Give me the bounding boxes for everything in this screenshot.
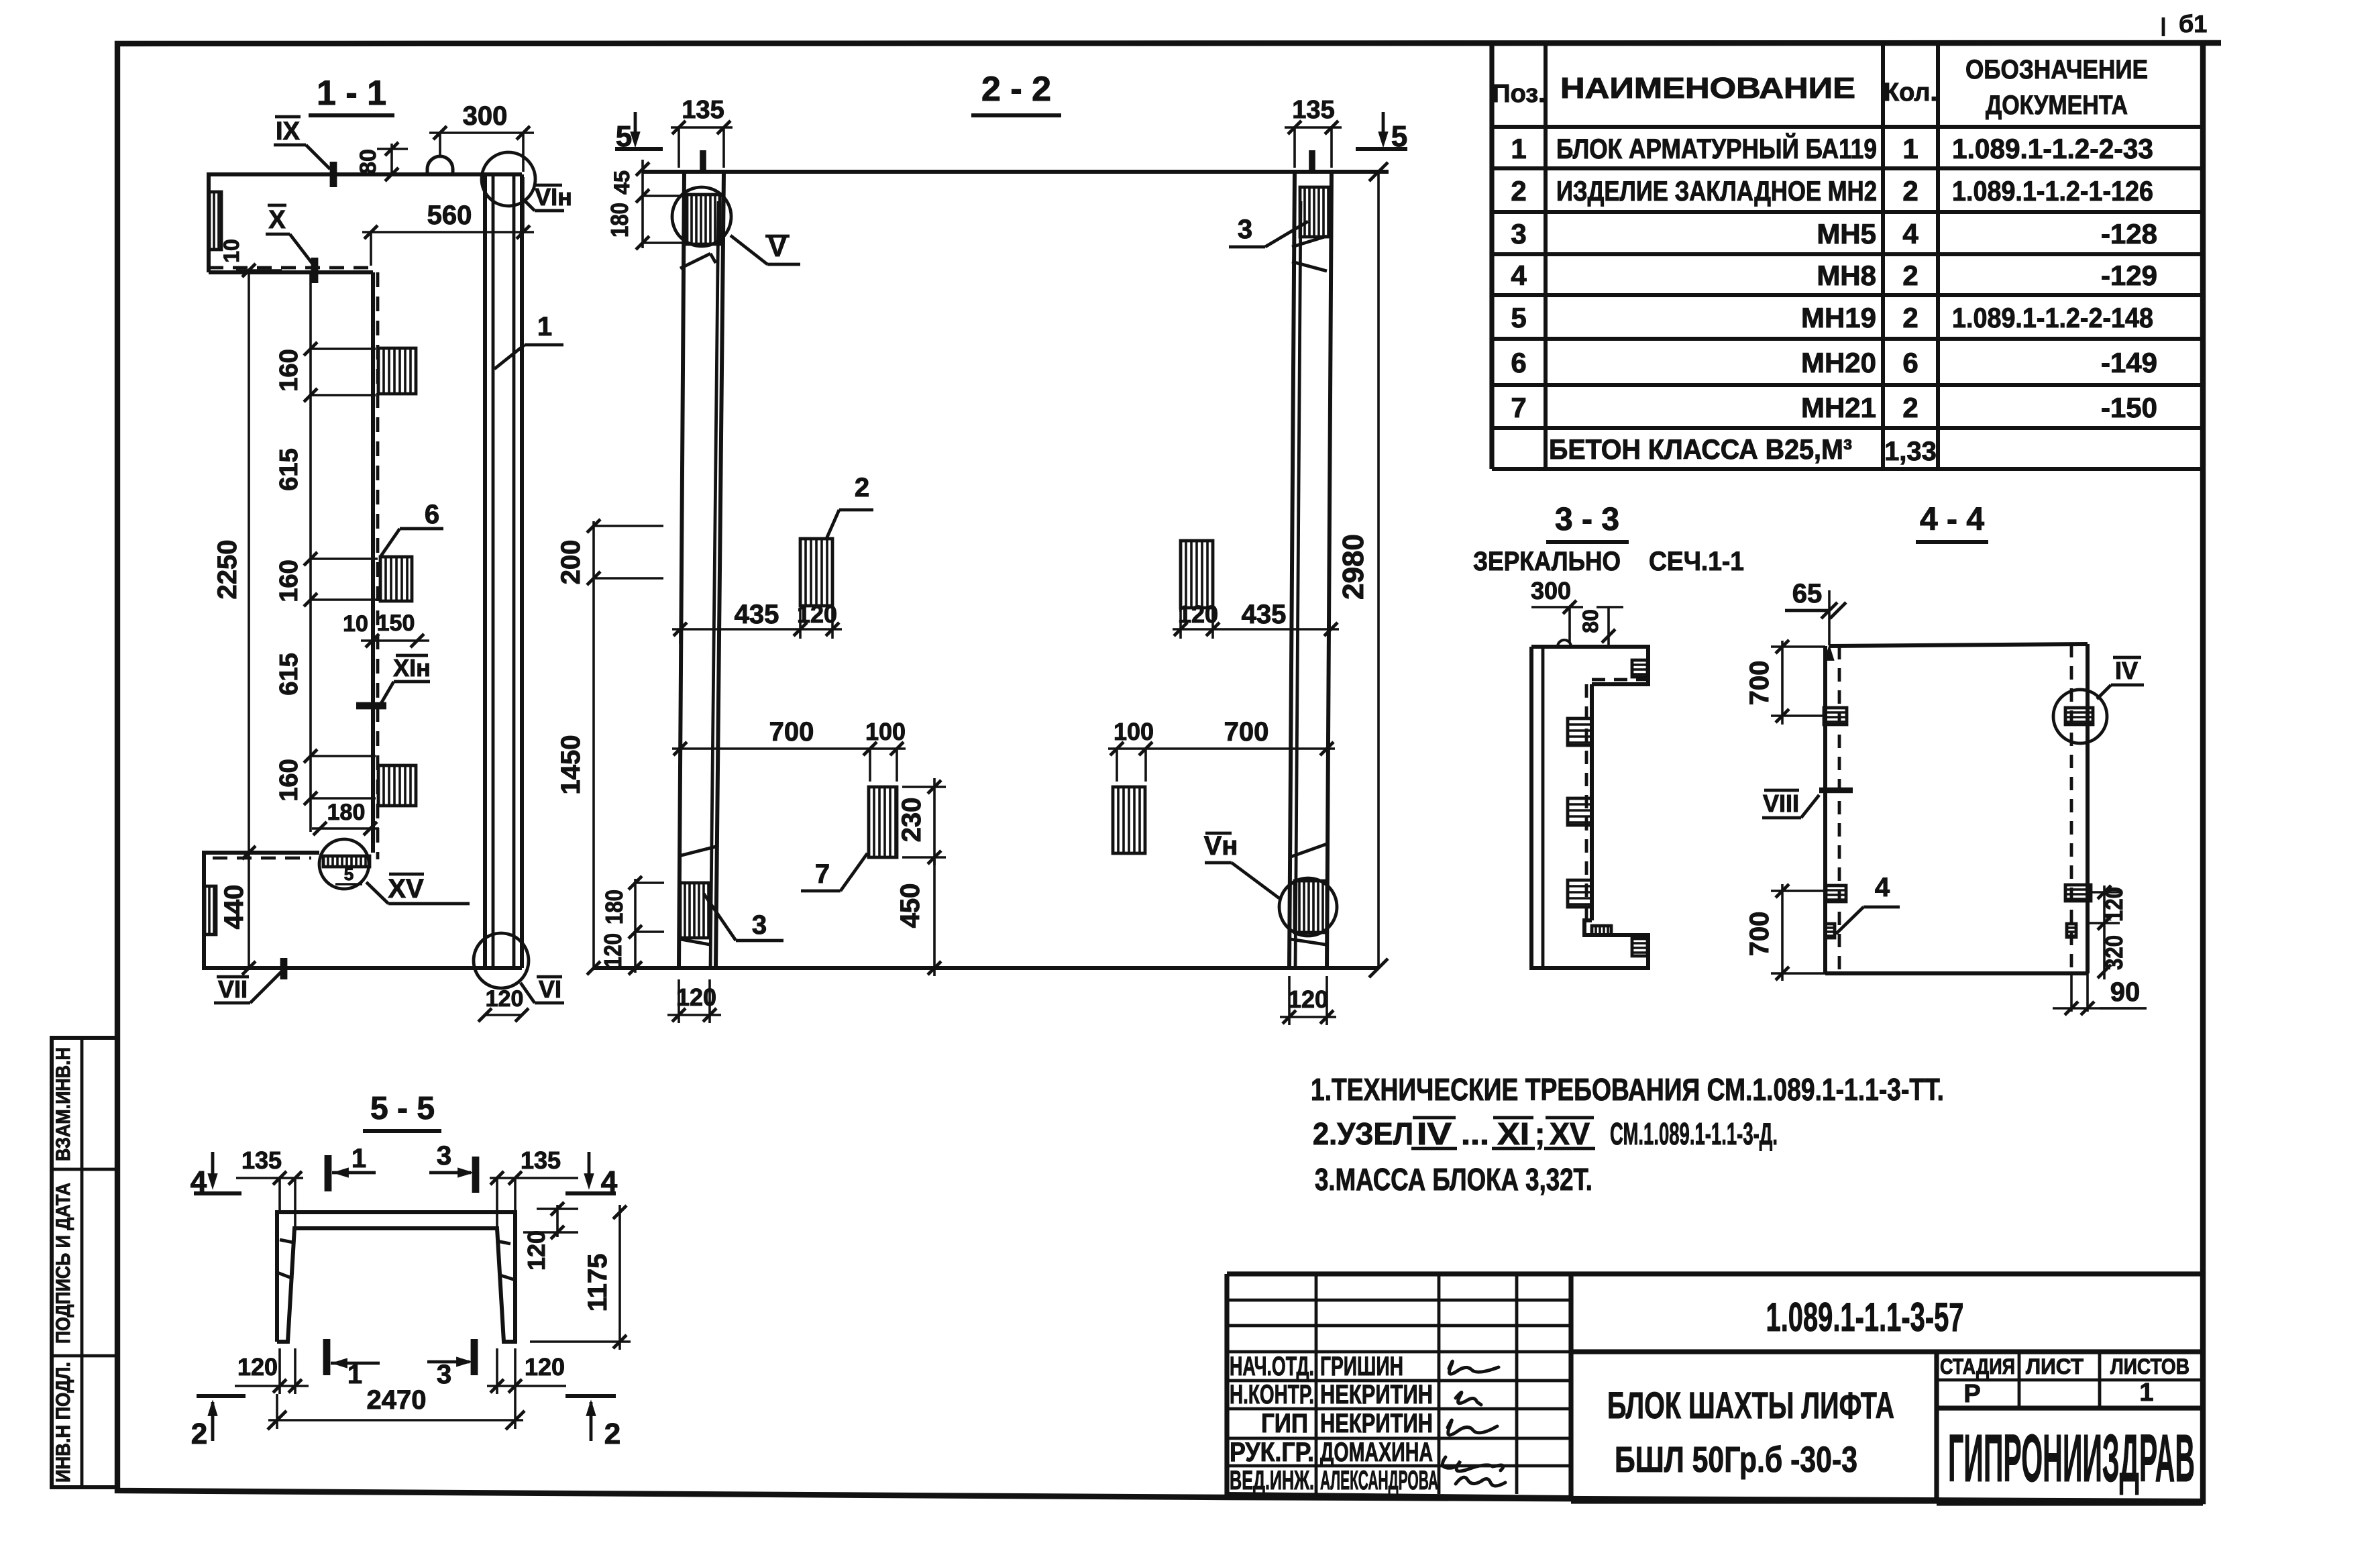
svg-text:120: 120: [797, 600, 837, 628]
dim 2980: [1337, 162, 1388, 977]
svg-text:180: 180: [600, 890, 628, 924]
dim 180 flange: [312, 800, 379, 835]
callout 3 bottom left: [704, 894, 783, 941]
svg-text:ВЗАМ.ИНВ.Н: ВЗАМ.ИНВ.Н: [52, 1047, 74, 1161]
svg-text:320: 320: [2100, 935, 2128, 970]
1-1 weld block upper: [378, 348, 416, 394]
signature squiggle 2: [1456, 1392, 1481, 1405]
svg-text:МН20: МН20: [1801, 347, 1876, 378]
4-4 right plate upper: [2065, 708, 2093, 725]
svg-text:6: 6: [1511, 347, 1526, 378]
svg-text:Vн: Vн: [1204, 831, 1238, 861]
staff row НАЧ.ОТД. ГРИШИН: [1230, 1352, 1403, 1381]
svg-text:3: 3: [437, 1360, 451, 1389]
2-2 right column hatch top: [1300, 187, 1331, 237]
svg-text:МН19: МН19: [1801, 302, 1876, 333]
1-1 slab keyway: [209, 192, 221, 250]
svg-text:560: 560: [427, 201, 472, 230]
svg-text:120: 120: [599, 933, 627, 968]
svg-text:1 - 1: 1 - 1: [317, 74, 386, 113]
callout 4 section44: [1836, 873, 1900, 934]
svg-text:XV: XV: [1550, 1116, 1590, 1151]
svg-text:615: 615: [275, 448, 303, 490]
table row 6: МН20: [1511, 347, 2157, 378]
svg-text:120: 120: [237, 1353, 278, 1381]
svg-text:БШЛ 50Гр.б -30-3: БШЛ 50Гр.б -30-3: [1615, 1440, 1857, 1480]
svg-text:1: 1: [537, 312, 552, 341]
node XIn label: [356, 654, 431, 706]
svg-text:1.089.1-1.2-1-126: 1.089.1-1.2-1-126: [1952, 175, 2153, 207]
section 2-2 title: [971, 70, 1061, 115]
chain dim 200-1450 left: [556, 519, 663, 975]
3-3 foot hatch: [1592, 926, 1611, 935]
1-1 bottom flange: [204, 853, 522, 968]
svg-text:ГИПРОНИИЗДРАВ: ГИПРОНИИЗДРАВ: [1948, 1421, 2195, 1496]
2-2 bottom edge: [594, 966, 1378, 970]
svg-text:435: 435: [1242, 600, 1287, 629]
node V label: [731, 233, 800, 264]
table row 2: ИЗДЕЛИЕ ЗАКЛАДНОЕ МН2: [1511, 175, 2153, 207]
signature squiggle 5: [1456, 1477, 1505, 1486]
note 2 roman numeral bars: [1411, 1118, 1595, 1148]
svg-text:160: 160: [275, 759, 303, 801]
svg-text:VIII: VIII: [1763, 790, 1799, 817]
node VIn label: [523, 183, 572, 211]
3-3 bottom right plate: [1632, 939, 1647, 956]
chain dim 45-180 left: [606, 160, 684, 250]
svg-text:135: 135: [1292, 96, 1334, 124]
margin stamp boxes: [52, 1038, 118, 1487]
svg-text:VIн: VIн: [535, 183, 572, 211]
dim 80: [356, 142, 408, 181]
svg-text:1: 1: [351, 1144, 366, 1173]
5-5 mark 3 top: [429, 1141, 476, 1193]
svg-text:1.ТЕХНИЧЕСКИЕ ТРЕБОВАНИЯ СМ.1.: 1.ТЕХНИЧЕСКИЕ ТРЕБОВАНИЯ СМ.1.089.1-1.1-…: [1311, 1072, 1944, 1107]
node VIII label: [1762, 790, 1853, 818]
svg-text:135: 135: [241, 1146, 282, 1174]
svg-text:2: 2: [1902, 260, 1918, 291]
callout 6: [380, 500, 443, 557]
1-1 weld block mid: [380, 557, 412, 601]
mark 5 top right: [1356, 112, 1407, 153]
svg-text:-150: -150: [2101, 392, 2157, 423]
3-3 body outline: [1531, 647, 1648, 968]
svg-text:ЗЕРКАЛЬНО: ЗЕРКАЛЬНО: [1473, 547, 1621, 576]
signature squiggle 4: [1442, 1457, 1503, 1471]
svg-text:-149: -149: [2101, 347, 2157, 378]
svg-text:90: 90: [2110, 977, 2141, 1007]
svg-text:ГИП: ГИП: [1261, 1409, 1308, 1438]
5-5 dim 135 right: [490, 1146, 578, 1228]
svg-text:VI: VI: [539, 975, 561, 1003]
dim 230: [897, 778, 946, 865]
5-5 mark 1 top: [328, 1144, 376, 1191]
staff row Н.КОНТР. НЕКРИТИН: [1230, 1380, 1433, 1409]
svg-text:2980: 2980: [1337, 534, 1370, 600]
stadiya header: [1940, 1354, 2189, 1379]
2-2 right rebar stub: [1309, 150, 1315, 172]
table row concrete: [1549, 433, 1937, 466]
1-1 right wall lines: [485, 174, 522, 968]
svg-text:4: 4: [1875, 873, 1890, 902]
svg-text:7: 7: [815, 859, 830, 889]
svg-text:160: 160: [275, 349, 303, 391]
section 5-5 title: [363, 1091, 441, 1131]
svg-text:120: 120: [1178, 600, 1218, 628]
svg-text:ОБОЗНАЧЕНИЕ: ОБОЗНАЧЕНИЕ: [1965, 55, 2148, 85]
callout 1 wall: [494, 312, 563, 369]
svg-text:НАИМЕНОВАНИЕ: НАИМЕНОВАНИЕ: [1560, 72, 1855, 105]
3-3 subtitle: [1473, 547, 1744, 576]
svg-text:180: 180: [606, 203, 633, 237]
svg-text:3.МАССА БЛОКА 3,32Т.: 3.МАССА БЛОКА 3,32Т.: [1315, 1162, 1592, 1197]
svg-text:Кол.: Кол.: [1884, 78, 1937, 107]
margin text podpis i data: [52, 1183, 74, 1344]
svg-text:700: 700: [1745, 661, 1774, 706]
node XV circle: [319, 839, 370, 889]
svg-text:100: 100: [865, 718, 906, 745]
svg-text:IX: IX: [276, 117, 301, 146]
node VII label: [214, 958, 284, 1003]
table row 3: МН5: [1511, 218, 2157, 250]
2-2 left rebar stub: [700, 150, 706, 172]
node X label: [266, 205, 315, 283]
staff row ВЕД.ИНЖ. АЛЕКСАНДРОВА: [1230, 1466, 1438, 1495]
node VIn circle: [482, 152, 535, 206]
5-5 dim 120 bottom left: [235, 1348, 309, 1394]
dim 560: [362, 177, 534, 266]
4-4 dim 700 upper: [1745, 640, 1825, 725]
3-3 lifting loop: [1558, 640, 1571, 647]
table row 4: МН8: [1511, 260, 2157, 291]
svg-text:5 - 5: 5 - 5: [370, 1091, 435, 1126]
chain dim 160-615-160-615-160: [275, 272, 378, 832]
4-4 dim 65: [1785, 579, 1846, 660]
svg-text:ГРИШИН: ГРИШИН: [1320, 1352, 1403, 1381]
svg-text:ВЕД.ИНЖ.: ВЕД.ИНЖ.: [1230, 1466, 1314, 1495]
2-2 block upper right: [1181, 541, 1213, 608]
svg-text:1175: 1175: [583, 1254, 612, 1312]
svg-text:VII: VII: [218, 975, 248, 1003]
svg-text:МН21: МН21: [1801, 392, 1876, 423]
dim 120-435 right: [1173, 600, 1339, 639]
svg-text:5: 5: [1511, 302, 1526, 333]
svg-text:120: 120: [2100, 887, 2128, 922]
org name: [1948, 1421, 2195, 1496]
svg-text:Поз.: Поз.: [1492, 80, 1545, 108]
svg-text:4: 4: [1902, 218, 1918, 250]
svg-text:МН5: МН5: [1817, 218, 1876, 250]
5-5 channel body: [277, 1212, 515, 1342]
svg-text:НЕКРИТИН: НЕКРИТИН: [1320, 1409, 1433, 1438]
svg-text:2: 2: [191, 1417, 207, 1450]
svg-text:180: 180: [327, 800, 366, 825]
svg-text:1.089.1-1.1-3-57: 1.089.1-1.1-3-57: [1766, 1295, 1964, 1340]
5-5 mark 1 bottom: [327, 1339, 380, 1389]
5-5 leg marks: [276, 1240, 515, 1280]
2-2 block lower right: [1113, 787, 1145, 853]
1-1 top slab outline: [209, 174, 522, 272]
svg-text:230: 230: [897, 798, 926, 843]
4-4 right plate lower: [2065, 885, 2091, 901]
2-2 left column: [679, 172, 724, 968]
svg-text:3: 3: [1511, 218, 1526, 250]
4-4 dim 700 lower: [1745, 884, 1825, 981]
note 2: [1313, 1116, 1778, 1151]
svg-text:БЕТОН КЛАССА В25,М³: БЕТОН КЛАССА В25,М³: [1549, 433, 1852, 465]
svg-text:1,33: 1,33: [1884, 437, 1937, 466]
2-2 bottom left joints: [679, 847, 716, 945]
5-5 dim 2470: [268, 1385, 525, 1430]
svg-text:ДОМАХИНА: ДОМАХИНА: [1320, 1438, 1433, 1467]
svg-text:45: 45: [610, 170, 634, 195]
sheet mark b1 top right: [2163, 10, 2207, 38]
1-1 lifting loop: [427, 156, 453, 174]
svg-text:5: 5: [344, 864, 354, 884]
node IV label: [2097, 657, 2144, 699]
svg-text:X: X: [268, 206, 286, 234]
dim 135 right: [1285, 96, 1342, 168]
svg-text:135: 135: [521, 1146, 561, 1174]
svg-text:1.089.1-1.2-2-33: 1.089.1-1.2-2-33: [1952, 133, 2153, 164]
dim 450: [896, 857, 941, 976]
2-2 block 7 lower left: [869, 787, 897, 857]
node IV circle: [2053, 690, 2107, 743]
callout 7: [801, 853, 867, 891]
5-5 mark 2 right: [565, 1396, 620, 1450]
svg-text:1.089.1-1.2-2-148: 1.089.1-1.2-2-148: [1952, 302, 2153, 333]
svg-text:БЛОК ШАХТЫ ЛИФТА: БЛОК ШАХТЫ ЛИФТА: [1607, 1384, 1894, 1426]
svg-text:300: 300: [463, 101, 508, 131]
chain dim 2250 and 440: [213, 264, 282, 975]
title text line 1: [1607, 1384, 1894, 1426]
node V circle: [672, 187, 731, 246]
svg-text:435: 435: [735, 600, 779, 629]
2-2 left column taper joint: [680, 254, 716, 268]
svg-text:ПОДПИСЬ И ДАТА: ПОДПИСЬ И ДАТА: [52, 1183, 74, 1344]
table header: [1492, 55, 2148, 120]
svg-text:80: 80: [356, 149, 381, 174]
svg-text:4 - 4: 4 - 4: [1920, 502, 1984, 537]
5-5 dim 120 right: [523, 1202, 578, 1271]
node Vn label: [1204, 831, 1279, 898]
4-4 left plate lower: [1826, 886, 1846, 902]
svg-text:120: 120: [525, 1353, 565, 1381]
svg-text:СТАДИЯ: СТАДИЯ: [1940, 1354, 2015, 1379]
svg-text:700: 700: [769, 717, 814, 747]
svg-text:3 - 3: 3 - 3: [1555, 502, 1619, 537]
svg-text:7: 7: [1511, 392, 1526, 423]
svg-text:2: 2: [1902, 175, 1918, 207]
svg-text:10: 10: [343, 611, 368, 637]
dim 10 upper left: [219, 239, 244, 263]
svg-text:65: 65: [1792, 579, 1823, 608]
dim 300: [429, 101, 534, 172]
3-3 wall plate 1: [1568, 718, 1592, 745]
svg-text:ЛИСТОВ: ЛИСТОВ: [2110, 1354, 2189, 1379]
svg-text:РУК.ГР.: РУК.ГР.: [1230, 1438, 1314, 1467]
4-4 left plate upper: [1824, 708, 1847, 725]
svg-text:120: 120: [523, 1230, 550, 1271]
svg-text:2: 2: [1902, 302, 1918, 333]
dim 435-120 left: [672, 600, 842, 644]
section 3-3 title: [1546, 502, 1629, 542]
svg-text:440: 440: [219, 885, 249, 930]
2-2 block 2 upper left: [800, 539, 832, 606]
svg-text:450: 450: [896, 883, 925, 928]
node XV small 5 label: [335, 864, 362, 884]
title block grid: [1227, 1274, 2203, 1503]
dim 100-700 right: [1108, 717, 1335, 782]
svg-text:НЕКРИТИН: НЕКРИТИН: [1320, 1380, 1433, 1409]
4-4 chain 120-320 right: [2088, 886, 2128, 979]
margin text vzam inv: [52, 1047, 74, 1161]
2-2 top edge: [643, 170, 1389, 174]
5-5 mark 4 right: [565, 1152, 618, 1198]
callout 2: [826, 473, 873, 539]
svg-text:6: 6: [425, 500, 439, 529]
4-4 right small plate: [2067, 924, 2076, 937]
2-2 bottom right joints: [1289, 844, 1327, 945]
dim 120 bottom right column: [1280, 976, 1336, 1025]
table row 5: МН19: [1511, 302, 2153, 333]
svg-text:150: 150: [377, 610, 415, 636]
dim 120 bottom left column: [667, 979, 721, 1023]
svg-text:БЛОК АРМАТУРНЫЙ БА119: БЛОК АРМАТУРНЫЙ БА119: [1556, 132, 1877, 164]
svg-text:б1: б1: [2179, 10, 2207, 38]
3-3 wall plate 3: [1568, 880, 1592, 907]
svg-text:ЛИСТ: ЛИСТ: [2026, 1354, 2084, 1379]
dim 10-150: [343, 610, 429, 647]
stadiya values: [1963, 1379, 2153, 1408]
svg-text:2: 2: [855, 473, 869, 502]
callout 3 top right: [1229, 215, 1308, 247]
svg-text:Р: Р: [1963, 1380, 1980, 1408]
svg-text:6: 6: [1902, 347, 1918, 378]
svg-text:1: 1: [1511, 133, 1526, 164]
dim 120 below wall: [478, 986, 529, 1022]
staff row ГИП НЕКРИТИН: [1261, 1409, 1433, 1438]
svg-text:ИНВ.Н ПОДЛ.: ИНВ.Н ПОДЛ.: [52, 1362, 74, 1483]
node VI label: [521, 975, 564, 1003]
svg-text:-128: -128: [2101, 218, 2157, 250]
section 4-4 title: [1916, 502, 1988, 542]
2-2 bottom left hatch: [680, 883, 709, 938]
svg-text:3: 3: [1238, 215, 1252, 244]
node VI circle: [474, 933, 529, 988]
svg-text:200: 200: [556, 540, 586, 585]
svg-text:АЛЕКСАНДРОВА: АЛЕКСАНДРОВА: [1320, 1466, 1438, 1495]
svg-text:300: 300: [1531, 577, 1571, 604]
svg-text:1: 1: [2139, 1379, 2153, 1407]
3-3 wall plate 2: [1568, 798, 1592, 825]
svg-text:3: 3: [752, 910, 767, 940]
parts table grid: [1492, 44, 2203, 469]
margin text inv n podl: [52, 1362, 74, 1483]
node XV label: [366, 874, 470, 904]
svg-text:100: 100: [1114, 718, 1154, 745]
svg-text:ДОКУМЕНТА: ДОКУМЕНТА: [1986, 91, 2128, 120]
5-5 mark 2 left: [191, 1396, 246, 1450]
svg-text:НАЧ.ОТД.: НАЧ.ОТД.: [1230, 1352, 1314, 1381]
svg-text:;: ;: [1535, 1116, 1545, 1151]
4-4 left small plate: [1825, 924, 1835, 938]
dim 135 left: [671, 96, 733, 168]
note 3: [1315, 1162, 1592, 1197]
3-3 dim 80: [1578, 607, 1623, 645]
table row 7: МН21: [1511, 392, 2157, 423]
note 1: [1311, 1072, 1944, 1107]
svg-text:2250: 2250: [213, 540, 242, 600]
svg-text:...: ...: [1461, 1116, 1489, 1151]
chain dim 180-120 bottom left: [599, 876, 664, 975]
svg-text:IV: IV: [1417, 1116, 1452, 1151]
svg-text:4: 4: [1511, 260, 1527, 291]
section 1-1 title: [309, 74, 394, 115]
5-5 mark 3 bottom: [427, 1339, 474, 1389]
5-5 dim 1175: [530, 1205, 631, 1350]
5-5 dim 135 left: [236, 1146, 303, 1228]
svg-text:2.УЗЕЛ: 2.УЗЕЛ: [1313, 1116, 1413, 1151]
svg-text:ИЗДЕЛИЕ ЗАКЛАДНОЕ МН2: ИЗДЕЛИЕ ЗАКЛАДНОЕ МН2: [1556, 175, 1877, 207]
signature squiggle 1: [1449, 1361, 1499, 1374]
5-5 dim 120 bottom right: [487, 1348, 566, 1394]
5-5 mark 4 left: [191, 1152, 241, 1198]
svg-text:МН8: МН8: [1817, 260, 1876, 291]
2-2 right column taper joint: [1292, 236, 1327, 271]
signature squiggle 3: [1448, 1420, 1497, 1435]
1-1 corner wall face: [373, 272, 378, 859]
svg-text:1450: 1450: [556, 735, 586, 795]
svg-text:120: 120: [1288, 985, 1328, 1013]
4-4 body outline: [1825, 644, 2088, 973]
3-3 top right plate: [1632, 660, 1647, 677]
svg-text:IV: IV: [2115, 657, 2138, 684]
svg-text:615: 615: [275, 653, 303, 695]
1-1 weld block lower: [378, 765, 416, 806]
svg-text:2: 2: [1511, 175, 1526, 207]
svg-text:XV: XV: [388, 874, 424, 904]
svg-text:СЕЧ.1-1: СЕЧ.1-1: [1649, 547, 1744, 576]
node IX label: [274, 117, 333, 187]
staff row РУК.ГР. ДОМАХИНА: [1230, 1438, 1433, 1467]
svg-text:-129: -129: [2101, 260, 2157, 291]
svg-text:СМ.1.089.1-1.1-3-Д.: СМ.1.089.1-1.1-3-Д.: [1610, 1116, 1778, 1151]
svg-text:2 - 2: 2 - 2: [981, 70, 1051, 109]
table row 1: БЛОК АРМАТУРНЫЙ БА119: [1511, 132, 2153, 164]
svg-text:XIн: XIн: [393, 654, 431, 682]
2-2 right column: [1289, 172, 1332, 968]
4-4 dim 90: [2053, 973, 2147, 1015]
title text line 2: [1615, 1440, 1857, 1480]
svg-text:2470: 2470: [367, 1385, 427, 1415]
svg-text:700: 700: [1224, 717, 1269, 747]
svg-text:10: 10: [219, 239, 244, 263]
1-1 flange keyway: [205, 886, 216, 934]
svg-text:160: 160: [275, 559, 303, 602]
svg-text:80: 80: [1578, 609, 1603, 633]
svg-text:700: 700: [1745, 912, 1774, 957]
node Vn circle: [1279, 878, 1337, 936]
doc number: [1766, 1295, 1964, 1340]
svg-text:2: 2: [604, 1417, 620, 1450]
dim 700-100 left: [672, 717, 906, 782]
svg-text:XI: XI: [1497, 1116, 1529, 1151]
svg-text:3: 3: [437, 1141, 451, 1171]
svg-text:135: 135: [682, 96, 724, 124]
svg-text:Н.КОНТР.: Н.КОНТР.: [1230, 1380, 1314, 1409]
3-3 dim 300: [1531, 577, 1583, 643]
